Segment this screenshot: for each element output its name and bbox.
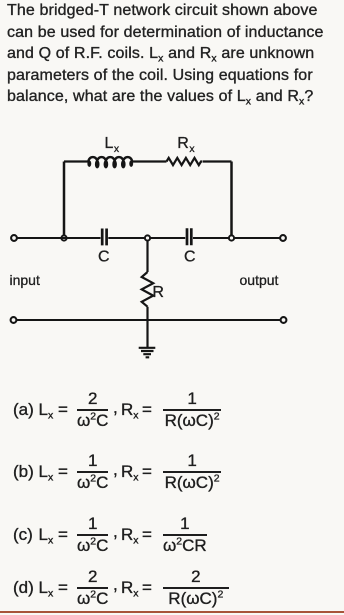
svg-text:C: C bbox=[184, 249, 196, 266]
svg-text:C: C bbox=[98, 249, 110, 266]
svg-text:R: R bbox=[152, 284, 164, 301]
svg-text:output: output bbox=[240, 272, 279, 288]
svg-text:Rx: Rx bbox=[177, 135, 195, 155]
svg-text:input: input bbox=[10, 272, 40, 288]
svg-text:Lx: Lx bbox=[105, 135, 120, 155]
